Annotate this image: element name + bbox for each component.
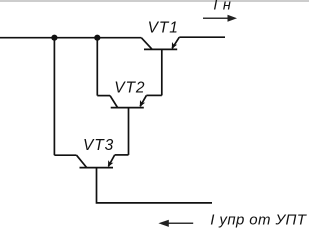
svg-text:VT2: VT2 [114, 79, 145, 96]
svg-text:I н: I н [213, 0, 231, 14]
svg-text:I упр от УПТ: I упр от УПТ [210, 211, 307, 228]
svg-text:VT1: VT1 [148, 20, 179, 37]
svg-text:VT3: VT3 [83, 137, 114, 154]
